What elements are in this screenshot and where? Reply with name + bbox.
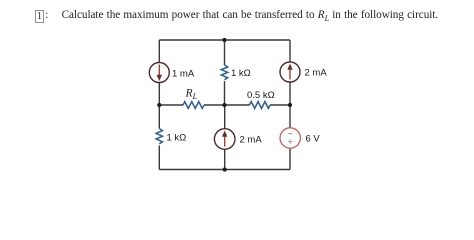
resistor RL (horizontal zigzag) xyxy=(183,102,204,109)
wire left branch lower (1 mA source to middle rail) xyxy=(158,83,160,106)
voltage source V1 6 V (circle) xyxy=(280,128,300,148)
wire middle rail center segment (RL to node) xyxy=(204,104,225,106)
svg-text:2 mA: 2 mA xyxy=(240,135,263,146)
node middle rail right junction xyxy=(288,103,292,107)
wire bottom-middle branch upper (middle rail to 2 mA source) xyxy=(224,105,226,129)
wire left branch upper (top rail to 1 mA source) xyxy=(158,40,160,63)
problem number box xyxy=(35,10,43,23)
problem statement xyxy=(45,9,48,22)
node bottom middle junction xyxy=(223,167,227,171)
wire bottom-right branch upper (middle rail to 6 V source) xyxy=(289,105,291,128)
svg-text:0.5 kΩ: 0.5 kΩ xyxy=(247,90,275,101)
svg-text:1 kΩ: 1 kΩ xyxy=(231,68,251,79)
wire right branch lower (2 mA source to middle rail) xyxy=(289,82,291,105)
current source I1 1 mA (down arrow) xyxy=(157,65,162,82)
node middle rail left junction xyxy=(157,103,161,107)
wire middle rail right segment (0.5 kohm to node) xyxy=(270,104,290,106)
current source I2 2 mA (up arrow) xyxy=(287,64,292,80)
current source I1 1 mA (circle) xyxy=(149,63,169,83)
svg-text:1 kΩ: 1 kΩ xyxy=(167,133,187,144)
wire top rail xyxy=(159,39,290,41)
node top middle junction xyxy=(222,38,226,42)
node middle rail center junction xyxy=(222,103,226,107)
wire middle rail left segment (node to RL) xyxy=(159,104,183,106)
current source I3 2 mA (up arrow) xyxy=(222,131,227,147)
wire bottom-left branch lower (1 kohm to bottom rail) xyxy=(158,146,160,170)
wire bottom-middle branch lower (2 mA source to bottom rail) xyxy=(224,149,226,169)
resistor R4 1 kohm bottom left (zigzag) xyxy=(156,129,162,144)
svg-text:1 mA: 1 mA xyxy=(172,68,195,79)
resistor R3 0.5 kohm (horizontal zigzag) xyxy=(250,102,271,109)
wire middle branch lower (1 kohm resistor to middle rail) xyxy=(224,81,226,105)
current source I2 2 mA top right (circle) xyxy=(280,62,300,82)
wire middle branch upper (top rail to 1 kohm resistor) xyxy=(224,40,226,65)
voltage source V1 minus sign xyxy=(288,133,293,135)
wire middle rail segment between node and 0.5 kohm xyxy=(225,104,250,106)
svg-text:2 mA: 2 mA xyxy=(305,68,328,79)
svg-text:RL: RL xyxy=(185,88,198,102)
wire right branch upper (top rail to 2 mA source) xyxy=(289,40,291,62)
wire bottom-left branch upper (middle rail to 1 kohm) xyxy=(158,105,160,129)
current source I3 2 mA bottom (circle) xyxy=(214,129,235,150)
voltage source V1 plus sign xyxy=(288,139,293,144)
resistor R2 1 kohm top middle (zigzag) xyxy=(221,65,227,80)
wire bottom-right branch lower (6 V source to bottom rail) xyxy=(289,148,291,170)
wire bottom rail xyxy=(159,169,290,171)
svg-text:6 V: 6 V xyxy=(306,133,321,144)
